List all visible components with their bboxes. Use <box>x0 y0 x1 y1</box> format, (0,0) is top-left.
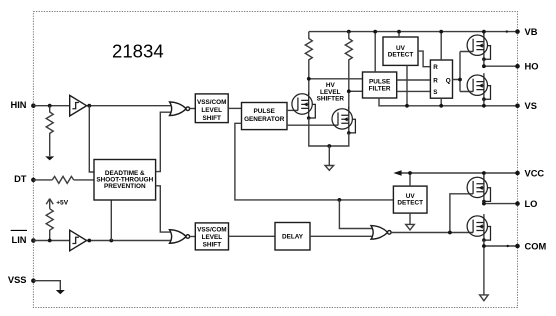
resistor R1 (HIN pulldown) <box>46 106 53 156</box>
block pulse generator <box>242 103 288 130</box>
svg-text:DT: DT <box>14 174 27 184</box>
node VB stray dot <box>506 30 508 32</box>
svg-text:Q: Q <box>446 77 451 84</box>
pin COM <box>515 241 546 251</box>
wire G1 output to level shift LS1 <box>190 108 196 110</box>
node M2 drain <box>347 89 351 93</box>
wire UV detect high ground stub <box>406 65 408 105</box>
transistor M3 (high side driver top) <box>467 33 490 61</box>
label HV level shifter <box>317 82 345 103</box>
wire DT to resistor R2 <box>33 179 52 181</box>
resistor R5 (level shift load 2) <box>345 32 352 109</box>
ground arrow (VSS) <box>56 290 65 294</box>
wire HIN input net <box>33 105 72 107</box>
node U2 output junction <box>87 239 91 243</box>
svg-text:R: R <box>433 77 438 84</box>
deadtime block <box>94 160 156 201</box>
svg-text:SHIFT: SHIFT <box>202 115 221 122</box>
wire deadtime block bottom connection <box>110 200 112 241</box>
ground arrow (level shift common) <box>325 146 334 170</box>
arrow VCC supply left <box>393 170 401 176</box>
wire LS1 to pulse generator <box>228 107 241 109</box>
resistor R4 (level shift load 1) <box>305 32 312 95</box>
wire low side net to OR gate G3 <box>339 200 377 229</box>
node latch power <box>439 30 443 34</box>
svg-text:DETECT: DETECT <box>397 200 423 207</box>
pin HIN <box>10 100 35 110</box>
svg-text:VSS/COM: VSS/COM <box>197 227 226 234</box>
svg-text:VSS/COM: VSS/COM <box>197 99 226 106</box>
pin VCC <box>515 168 544 178</box>
svg-text:VSS: VSS <box>8 275 27 285</box>
svg-text:+5V: +5V <box>56 199 69 206</box>
wire G3 output to low side driver gates <box>391 194 473 233</box>
svg-text:COM: COM <box>525 241 547 251</box>
svg-text:HO: HO <box>525 62 539 72</box>
wire latch power stub <box>440 32 442 60</box>
wire VSS to ground <box>33 281 60 290</box>
svg-text:VCC: VCC <box>525 168 545 178</box>
node UV detect high power <box>397 30 401 34</box>
wire M1 drain node to pulse filter input 1 <box>309 78 363 80</box>
wire HO net <box>484 65 518 67</box>
wire M6 source to COM and ground <box>483 240 485 295</box>
node M6 drain on LO <box>482 202 486 206</box>
transistor M6 (low side driver bottom) <box>467 214 490 242</box>
svg-text:GENERATOR: GENERATOR <box>244 116 285 123</box>
node low side net junction <box>338 198 342 202</box>
transistor M5 (low side driver top) <box>467 175 490 203</box>
block VSS/COM level shift LS1 <box>195 94 228 123</box>
pin DT <box>14 174 36 184</box>
NOR gate G2 <box>170 230 190 244</box>
wire G2 output to level shift LS2 <box>190 236 196 238</box>
block UV detect high side <box>383 37 418 65</box>
pin HO <box>515 62 538 72</box>
node deadtime bottom tap <box>109 239 113 243</box>
wire delay to OR gate G3 <box>310 235 377 237</box>
wire UV detect high power stub <box>398 32 400 37</box>
svg-text:VS: VS <box>525 101 537 111</box>
svg-text:FILTER: FILTER <box>369 86 391 93</box>
wire M4 source to VS <box>483 99 485 106</box>
schmitt buffer U1 (HIN) <box>70 95 87 116</box>
transistor M1 (level shift) <box>292 92 315 120</box>
wire U1 output down to deadtime block <box>89 106 94 172</box>
wire pulse generator tap to low side net <box>235 123 394 200</box>
node M3 drain <box>482 30 486 34</box>
wire UV detect high output to latch R <box>418 51 430 67</box>
supply +5V arrow <box>46 199 69 209</box>
wire M1 M2 sources to common <box>309 118 349 146</box>
node UV detect high ground <box>405 104 409 108</box>
wire pulse filter power stub <box>374 32 376 72</box>
ground arrow (COM return) <box>480 295 489 301</box>
node HIN resistor tap <box>48 104 52 108</box>
wire deadtime output 1 to NOR gate G1 <box>156 112 176 171</box>
transistor M2 (level shift) <box>332 107 355 135</box>
node Q junction <box>458 78 462 82</box>
svg-text:21834: 21834 <box>112 41 164 62</box>
wire COM net <box>484 245 518 247</box>
wire VCC rail with arrow <box>398 172 518 174</box>
svg-text:VB: VB <box>525 27 538 37</box>
wire M5 drain to VCC <box>483 173 485 177</box>
wire M3 source to HO <box>483 59 485 66</box>
pin VB <box>515 27 538 37</box>
wire pulse filter ground stub <box>379 98 518 106</box>
node R4 top <box>347 30 351 34</box>
pin VSS <box>8 275 36 285</box>
svg-text:DELAY: DELAY <box>282 234 304 241</box>
wire pulse filter output 2 to latch S <box>397 90 431 92</box>
wire pulse generator to M2 gate <box>287 124 338 126</box>
node pulse filter power <box>373 30 377 34</box>
wire LS2 to delay <box>229 235 276 237</box>
svg-text:SHIFTER: SHIFTER <box>317 96 345 103</box>
svg-text:DETECT: DETECT <box>388 51 414 58</box>
svg-text:HIN: HIN <box>10 100 26 110</box>
wire latch Q to driver gates <box>453 52 474 92</box>
svg-text:LO: LO <box>525 199 538 209</box>
node level shift source junction <box>327 144 331 148</box>
svg-text:LIN: LIN <box>12 235 27 245</box>
svg-text:R: R <box>433 64 438 71</box>
pin LO <box>515 199 537 209</box>
wire M2 drain node to pulse filter input 2 <box>349 90 363 92</box>
block delay <box>275 223 310 251</box>
node M4 drain on HO <box>482 64 486 68</box>
svg-text:PULSE: PULSE <box>369 79 391 86</box>
wire latch ground stub <box>440 98 442 106</box>
svg-text:LEVEL: LEVEL <box>202 234 223 241</box>
wire U1 output to NOR gate G1 <box>87 105 176 107</box>
wire LIN input net <box>33 240 72 242</box>
svg-text:PREVENTION: PREVENTION <box>104 183 146 190</box>
svg-text:SHIFT: SHIFT <box>203 241 222 248</box>
block pulse filter <box>363 72 397 98</box>
node U1 output junction <box>87 104 91 108</box>
wire UV detect low power stub <box>409 173 411 186</box>
node UV detect low power <box>408 171 412 175</box>
wire pulse generator to M1 gate <box>287 109 298 111</box>
ground arrow (UV detect low) <box>406 213 415 230</box>
wire deadtime output 2 to NOR gate G2 <box>156 186 176 232</box>
node G3 output junction <box>448 231 452 235</box>
node M1 drain <box>307 77 311 81</box>
svg-text:S: S <box>433 89 437 96</box>
block VSS/COM level shift LS2 <box>195 223 228 250</box>
wire pulse filter output 1 to latch R <box>397 79 431 81</box>
latch U3 (RS) <box>430 60 452 98</box>
wire VB rail <box>309 31 518 33</box>
wire M3 drain to VB <box>483 32 485 35</box>
node M4 source on VS <box>482 104 486 108</box>
resistor R2 (DT series) <box>52 176 73 183</box>
node COM stray dot <box>507 245 509 247</box>
resistor R3 (LIN pullup) <box>46 209 53 241</box>
node latch ground <box>439 104 443 108</box>
NOR gate G1 <box>170 102 190 116</box>
node M6 source on COM <box>482 244 486 248</box>
block UV detect low side <box>393 186 427 213</box>
svg-text:LEVEL: LEVEL <box>201 107 222 114</box>
svg-text:PULSE: PULSE <box>254 108 276 115</box>
node M5 drain <box>482 171 486 175</box>
pin LIN (active low) <box>11 230 36 244</box>
wire U2 output to NOR gate G2 <box>87 240 176 242</box>
schmitt buffer U2 (LIN) <box>70 230 87 251</box>
wire LO net <box>484 203 518 205</box>
pin VS <box>515 101 537 111</box>
OR gate G3 <box>371 226 391 240</box>
ground arrow (HIN pulldown) <box>45 156 54 160</box>
transistor M4 (high side driver bottom) <box>467 73 490 101</box>
node LIN resistor tap <box>48 239 52 243</box>
wire M5 source to LO <box>483 201 485 203</box>
wire R2 to deadtime block <box>74 179 94 181</box>
